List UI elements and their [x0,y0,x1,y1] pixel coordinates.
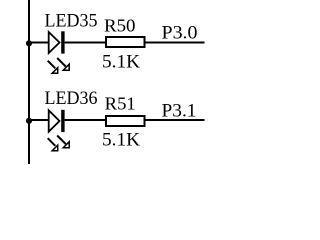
svg-text:R50: R50 [104,15,136,35]
svg-text:LED36: LED36 [45,88,98,109]
svg-text:R51: R51 [105,93,136,113]
svg-text:5.1K: 5.1K [102,129,140,150]
svg-text:5.1K: 5.1K [102,51,140,72]
svg-text:P3.1: P3.1 [162,101,197,122]
svg-text:LED35: LED35 [45,10,98,31]
svg-text:P3.0: P3.0 [162,23,198,44]
